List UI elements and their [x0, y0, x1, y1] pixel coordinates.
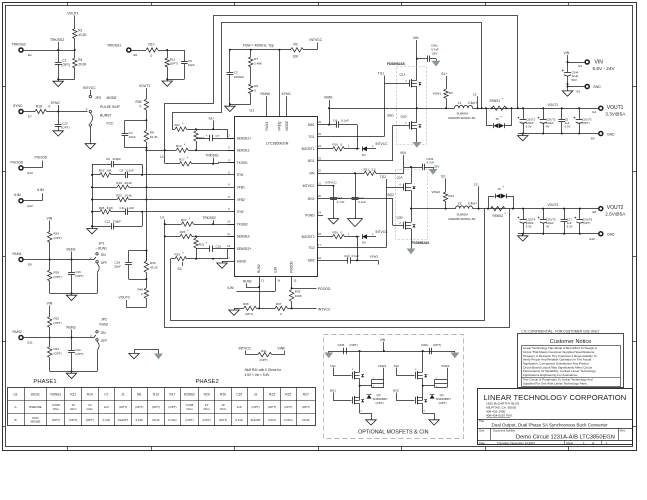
svg-text:Ohm: Ohm	[70, 407, 77, 411]
capacitor C1 (OPT)	[55, 50, 70, 79]
note LTC confidential	[522, 329, 601, 333]
svg-text:L1: L1	[458, 101, 462, 105]
svg-text:BG2: BG2	[393, 389, 399, 393]
svg-text:SW2: SW2	[308, 259, 315, 263]
svg-text:VINF: VINF	[278, 347, 286, 351]
svg-text:(OPT): (OPT)	[185, 418, 193, 422]
svg-text:R38: R38	[243, 302, 249, 306]
wire + node ILIM label	[23, 188, 43, 201]
ground JP3	[85, 144, 95, 149]
wire SW1 node rail	[328, 107, 454, 109]
resistor R38 (OPT)	[234, 302, 275, 316]
svg-text:VSW1: VSW1	[324, 96, 333, 100]
svg-text:SENSE: SENSE	[30, 420, 40, 424]
node TG2 optional	[393, 364, 414, 376]
svg-text:ILIM: ILIM	[37, 188, 44, 192]
title date row	[479, 441, 608, 445]
svg-text:L1-: L1-	[160, 155, 165, 159]
svg-text:PGND: PGND	[305, 213, 315, 217]
node TG1 optional	[330, 364, 352, 376]
svg-text:RUN2: RUN2	[257, 264, 261, 273]
capacitor C7 + wire SENSE1+	[196, 129, 235, 141]
wire comp right rail	[142, 164, 144, 226]
capacitor C8 220pF	[92, 157, 142, 167]
resistor R8 62.4K	[144, 131, 157, 142]
resistor RSNS1 0.008	[490, 97, 508, 110]
svg-text:10K: 10K	[293, 55, 300, 59]
svg-text:J6: J6	[498, 187, 502, 191]
customer notice box	[518, 334, 624, 388]
node L2- label	[160, 216, 165, 220]
svg-text:BG1: BG1	[388, 114, 395, 118]
svg-text:INTVCC: INTVCC	[318, 307, 331, 311]
svg-text:3.01K: 3.01K	[135, 418, 143, 422]
svg-text:R13: R13	[199, 136, 205, 140]
power-ground CIN2	[429, 169, 438, 175]
svg-text:TRK/SS2: TRK/SS2	[203, 216, 217, 220]
svg-text:2.49K: 2.49K	[254, 61, 262, 65]
svg-text:R16: R16	[333, 143, 339, 147]
svg-text:10pF: 10pF	[188, 63, 195, 67]
svg-text:43.2K: 43.2K	[78, 33, 87, 37]
node VSW2 optional	[423, 364, 450, 388]
ground RUN1	[66, 295, 76, 300]
dashed outline Q2 package	[396, 170, 428, 240]
svg-text:OPTIONAL MOSFETS & CIN: OPTIONAL MOSFETS & CIN	[358, 430, 429, 436]
svg-text:E6: E6	[591, 137, 595, 141]
svg-text:TG2: TG2	[393, 364, 399, 368]
svg-text:C7: C7	[216, 134, 220, 138]
svg-text:R35: R35	[136, 100, 142, 104]
svg-text:MODE: MODE	[285, 121, 289, 131]
svg-text:Supplied For Use With Linear T: Supplied For Use With Linear Technology …	[523, 381, 588, 385]
capacitor C12 330pF	[92, 220, 142, 230]
wire ITH2 row to U1	[141, 211, 227, 213]
svg-text:(OPT): (OPT)	[69, 418, 77, 422]
svg-text:RUN2: RUN2	[100, 322, 109, 326]
svg-text:RSNS2: RSNS2	[184, 392, 195, 396]
resistor R33 100K	[289, 290, 301, 310]
node SYNC to U1	[282, 92, 292, 117]
svg-text:E8: E8	[593, 210, 597, 214]
svg-text:TK/SS2: TK/SS2	[237, 222, 248, 226]
svg-text:VSW2: VSW2	[432, 190, 441, 194]
svg-text:R36: R36	[333, 230, 339, 234]
wire RUN1	[23, 259, 94, 261]
U1 right pin stubs	[317, 120, 323, 261]
connector E3 GND	[577, 85, 602, 94]
resistor R9 0	[249, 84, 259, 104]
svg-text:Stuff R41 with 0 Ohms for: Stuff R41 with 0 Ohms for	[245, 368, 282, 372]
node VOUT2 feedback	[119, 296, 147, 308]
svg-text:ILIM: ILIM	[228, 286, 235, 290]
customer notice text	[523, 346, 598, 385]
transistor Q1B	[401, 107, 422, 142]
capacitor C5 1uF 6.3V	[558, 108, 570, 133]
ground Q4	[429, 420, 439, 425]
svg-text:4V: 4V	[546, 124, 550, 128]
node RUN1 label	[67, 248, 76, 260]
svg-text:E2: E2	[28, 53, 32, 57]
svg-text:(OPT): (OPT)	[135, 405, 143, 409]
resistor R41 (OPT)	[258, 349, 285, 362]
resistor R17* (TK/SS1 row)	[165, 156, 235, 166]
svg-text:4V: 4V	[546, 224, 550, 228]
transistor Q3 top	[352, 351, 364, 400]
power-ground link right	[154, 354, 163, 360]
svg-text:(OPT): (OPT)	[152, 405, 160, 409]
resistor R19 20.0k (VFB1)	[91, 181, 228, 190]
node VIN input	[564, 51, 570, 72]
capacitor CIN7 (OPT)	[421, 343, 441, 354]
svg-text:SENSE2-: SENSE2-	[237, 235, 251, 239]
svg-text:Applications Engineering For A: Applications Engineering For Assistance.	[523, 373, 578, 377]
svg-text:J1: J1	[121, 392, 125, 396]
resistor R21 2.2 (VIN filter)	[323, 167, 404, 176]
capacitor COUT5 (OPT)	[574, 108, 592, 133]
ground R38	[229, 308, 239, 315]
part label FDS6982AS ch1	[387, 62, 405, 66]
svg-text:3.01K: 3.01K	[268, 418, 276, 422]
ground TRK/SS1 filter	[162, 81, 172, 86]
wire RUN2	[23, 337, 94, 339]
svg-text:0.1uF: 0.1uF	[103, 418, 111, 422]
svg-text:R13: R13	[153, 392, 159, 396]
svg-text:RUN2: RUN2	[13, 330, 22, 334]
svg-text:6.3V: 6.3V	[526, 124, 532, 128]
caption optional mosfets	[358, 430, 429, 436]
svg-text:TG2: TG2	[308, 246, 314, 250]
svg-text:2.2nF: 2.2nF	[127, 206, 135, 210]
svg-text:E7: E7	[28, 115, 32, 119]
capacitor C3 22pF	[122, 120, 147, 148]
svg-text:ILIM: ILIM	[14, 193, 21, 197]
wire TG1 gate	[323, 72, 409, 137]
svg-text:6.3V: 6.3V	[526, 224, 532, 228]
svg-text:R23: R23	[449, 194, 455, 198]
svg-text:(OPT): (OPT)	[268, 405, 276, 409]
svg-text:RUN1: RUN1	[13, 252, 22, 256]
svg-text:of: of	[592, 441, 594, 445]
wire BG2 gate	[323, 193, 404, 226]
resistor R29* (RH2)	[171, 251, 228, 261]
svg-text:(OPT): (OPT)	[350, 343, 358, 347]
wire R35 junction	[145, 110, 147, 130]
svg-text:C2: C2	[234, 71, 238, 75]
wire FSW bottom	[229, 103, 251, 106]
svg-text:E13: E13	[28, 171, 34, 175]
wire RUN2 ground rail	[50, 370, 97, 373]
resistor R11* (RH1)	[172, 122, 227, 132]
svg-text:220pF: 220pF	[113, 157, 122, 161]
wire RUN1 ground rail	[50, 292, 97, 295]
svg-text:R11: R11	[175, 123, 181, 127]
svg-text:R21: R21	[364, 167, 370, 171]
svg-text:SYNC: SYNC	[13, 104, 23, 108]
node VIN R32	[47, 302, 53, 317]
svg-text:2.2: 2.2	[372, 167, 377, 171]
node INTVCC JP3	[83, 86, 96, 95]
part label Q4 Si4816BDY (OPT)	[436, 393, 452, 405]
resistor R35 0	[136, 99, 149, 110]
svg-text:BG2: BG2	[388, 193, 395, 197]
svg-text:SYNC: SYNC	[51, 101, 61, 105]
capacitor COUT2 220uF 6.3V	[517, 108, 535, 133]
node VOUT1 R35	[139, 84, 150, 99]
svg-text:INTVCC: INTVCC	[376, 230, 389, 234]
svg-text:DESC: DESC	[31, 392, 41, 396]
capacitor CIN4 22uF 50V	[562, 70, 579, 91]
svg-text:PGOOD: PGOOD	[11, 160, 24, 164]
svg-text:0.1uF: 0.1uF	[235, 418, 243, 422]
svg-text:SYNC: SYNC	[282, 92, 292, 96]
svg-text:Dual Output, Dual Phase 5A Syn: Dual Output, Dual Phase 5A Synchronous B…	[492, 422, 609, 427]
svg-text:VIN: VIN	[413, 36, 419, 40]
node VSW2 tap SW2	[370, 254, 379, 264]
svg-text:RSNS2: RSNS2	[493, 214, 504, 218]
svg-text:(OPT): (OPT)	[61, 63, 70, 67]
svg-text:0.1uF: 0.1uF	[341, 118, 349, 122]
wire comp left rail	[91, 164, 93, 228]
power-ground Q2B source	[407, 249, 416, 255]
svg-text:408-434-0507 FAX: 408-434-0507 FAX	[486, 414, 512, 418]
svg-text:0: 0	[140, 105, 142, 109]
svg-text:(OPT): (OPT)	[54, 275, 62, 279]
wire to ground ch1 trk	[166, 67, 184, 81]
svg-text:BOOST2: BOOST2	[302, 235, 315, 239]
jumper JP3 MODE	[86, 95, 121, 143]
svg-text:(OPT): (OPT)	[260, 358, 268, 362]
svg-text:VFB1: VFB1	[237, 186, 245, 190]
capacitor C21 (OPT)	[68, 338, 83, 372]
capacitor CIN6 (OPT)	[338, 343, 358, 354]
svg-text:2.2nF: 2.2nF	[126, 169, 134, 173]
node INTVCC D3	[376, 230, 389, 234]
resistor R7 2.49K	[249, 50, 263, 84]
title block box	[478, 389, 633, 445]
node INTVCC R2	[310, 38, 323, 50]
svg-text:SUMIDA: SUMIDA	[457, 212, 469, 216]
svg-text:PGOOD: PGOOD	[290, 260, 294, 273]
diode D3	[362, 233, 376, 245]
capacitor C17 1uF 6.3V	[561, 209, 573, 234]
svg-text:SENSE1-: SENSE1-	[237, 149, 251, 153]
svg-text:6.3V: 6.3V	[565, 124, 571, 128]
svg-text:GND: GND	[593, 85, 601, 89]
svg-text:RUN1: RUN1	[67, 248, 76, 252]
resistor R10 0	[131, 43, 158, 59]
wire R10 to R12/C6	[158, 49, 184, 51]
svg-text:2.5V@5A: 2.5V@5A	[605, 211, 626, 216]
resistor R34 (OPT)	[48, 338, 62, 372]
svg-text:CIN6: CIN6	[338, 343, 345, 347]
resistor R4 20.0K	[73, 58, 88, 68]
svg-text:(OPT): (OPT)	[439, 401, 447, 405]
svg-text:C7: C7	[104, 392, 108, 396]
svg-text:R18: R18	[36, 105, 42, 109]
resistor R40 0	[138, 288, 149, 308]
svg-text:(OPT): (OPT)	[376, 401, 384, 405]
svg-text:RSNS1: RSNS1	[490, 99, 501, 103]
node VIN optional	[380, 338, 386, 351]
resistor R27* (TK/SS2 row)	[165, 217, 235, 227]
node INTVCC R41	[239, 347, 258, 355]
svg-text:1nF: 1nF	[237, 405, 242, 409]
ground RUN2	[66, 373, 76, 378]
svg-text:0 Ohm: 0 Ohm	[168, 418, 178, 422]
svg-text:(OPT): (OPT)	[75, 352, 83, 356]
transistor Q2B	[397, 208, 416, 249]
U1 left pin labels	[237, 136, 252, 263]
svg-text:ON: ON	[101, 253, 106, 257]
wire ground pair link	[135, 350, 159, 354]
node VOUT2 rail label	[548, 203, 559, 207]
svg-text:ILIM: ILIM	[273, 266, 277, 273]
part label Q3 Si4816BDY (OPT)	[373, 393, 389, 405]
svg-text:TG1: TG1	[330, 364, 336, 368]
svg-text:100K: 100K	[295, 294, 302, 298]
svg-text:S1+: S1+	[441, 72, 447, 76]
svg-text:R20: R20	[116, 194, 122, 198]
svg-text:2.4uH: 2.4uH	[468, 202, 477, 206]
svg-text:TRK/SS1: TRK/SS1	[206, 154, 220, 158]
jumper JP2 RUN2	[90, 318, 108, 372]
svg-text:FDS6982AS: FDS6982AS	[412, 241, 430, 245]
svg-text:RUN2: RUN2	[243, 280, 252, 284]
svg-text:A: A	[15, 405, 17, 409]
diode pair J5	[487, 109, 512, 129]
svg-text:PHASE1: PHASE1	[33, 379, 56, 385]
svg-text:0 Ohm: 0 Ohm	[284, 418, 294, 422]
svg-text:62.4K: 62.4K	[150, 135, 158, 139]
resistor R36 0	[323, 230, 360, 238]
svg-text:CDEP85-2R4MC-50: CDEP85-2R4MC-50	[448, 217, 476, 221]
resistor R37 0	[275, 302, 317, 316]
capacitor C15 + wire SENSE2+	[196, 245, 235, 259]
svg-text:Ohm: Ohm	[53, 407, 60, 411]
svg-text:JP1: JP1	[99, 242, 105, 246]
connector E11 RUN2	[13, 330, 33, 345]
table row B DCR SENSE	[15, 416, 310, 424]
svg-text:(OPT): (OPT)	[582, 121, 590, 125]
svg-text:PULSE SKIP: PULSE SKIP	[100, 105, 121, 109]
svg-text:Customer Notice: Customer Notice	[550, 339, 592, 345]
diode pair J6	[489, 186, 514, 209]
svg-text:R19: R19	[116, 181, 122, 185]
svg-text:U1: U1	[14, 392, 18, 396]
wire VOUT2 rail	[473, 208, 599, 210]
svg-text:VOUT1: VOUT1	[548, 103, 559, 107]
node S2- / resistor R23	[432, 175, 455, 210]
ground SYNC cap	[53, 131, 63, 136]
svg-text:VIN: VIN	[564, 51, 570, 55]
svg-text:25V: 25V	[432, 52, 437, 56]
wire TG2 gate	[323, 175, 404, 248]
node VSW1 tap	[324, 96, 333, 126]
wire sense loop 2a	[164, 209, 510, 328]
svg-text:50V: 50V	[572, 78, 577, 82]
svg-text:R6: R6	[449, 91, 453, 95]
transistor Q4 bottom	[416, 385, 428, 413]
svg-text:RUN1: RUN1	[265, 122, 269, 131]
dashed outline Q1 package	[397, 67, 427, 145]
svg-text:VOUT1: VOUT1	[607, 105, 624, 111]
node VIN Q2	[400, 151, 412, 181]
svg-text:(OPT): (OPT)	[54, 351, 62, 355]
svg-text:Demo Circuit 1231A-A/B LTC3: Demo Circuit 1231A-A/B LTC3850EGN	[516, 434, 615, 440]
svg-text:R2: R2	[294, 42, 298, 46]
node VIN Q1	[413, 36, 419, 72]
resistor R1 43.2K	[73, 29, 88, 39]
svg-text:R14: R14	[176, 144, 182, 148]
svg-text:20.0k: 20.0k	[302, 418, 310, 422]
svg-text:(OPT): (OPT)	[284, 405, 292, 409]
svg-text:0.1uF: 0.1uF	[358, 200, 366, 204]
connector E7 SYNC	[13, 104, 32, 119]
svg-text:RSNS1: RSNS1	[51, 392, 62, 396]
svg-text:R41: R41	[261, 349, 267, 353]
wire sense column	[145, 142, 147, 261]
wire + node PGOOD label	[23, 156, 47, 168]
node BG2 optional	[393, 389, 414, 401]
node VOUT1 rail label	[548, 103, 559, 107]
svg-text:Thursday, December 13,2007: Thursday, December 13,2007	[497, 441, 535, 445]
svg-text:OFF: OFF	[101, 339, 107, 343]
capacitor COUT3 100uF 4V	[538, 209, 556, 234]
capacitor CIN1 4.7uF 25V	[416, 44, 439, 62]
svg-text:R27: R27	[181, 218, 187, 222]
capacitor C2 1000pF	[227, 50, 245, 104]
svg-text:R27: R27	[303, 392, 309, 396]
svg-text:TG2: TG2	[380, 175, 386, 179]
resistor R25 8.2K + capacitor C11 2.2nF (ITH2)	[92, 206, 142, 215]
wire FSW rail	[229, 49, 291, 51]
svg-text:SHORT: SHORT	[118, 418, 129, 422]
svg-text:B: B	[15, 418, 17, 422]
svg-text:TRK/SS2: TRK/SS2	[50, 38, 64, 42]
svg-text:INTVCC: INTVCC	[303, 184, 316, 188]
svg-text:S2-: S2-	[441, 175, 446, 179]
U1 right pin labels	[302, 123, 316, 263]
diode Q4 body	[430, 395, 435, 399]
svg-text:(OPT): (OPT)	[219, 418, 227, 422]
svg-text:PGOOD: PGOOD	[318, 287, 331, 291]
svg-text:R22: R22	[285, 392, 291, 396]
svg-text:D1: D1	[362, 153, 366, 157]
jumper JP1 RUN1	[90, 242, 107, 294]
resistor R13*	[194, 129, 208, 150]
wire Q4 bottom + ground	[423, 411, 435, 420]
svg-text:CIN6: CIN6	[421, 343, 428, 347]
wire VOUT1 ground rail	[518, 133, 599, 136]
U1 bottom pin labels rotated	[257, 260, 293, 273]
title document number	[479, 428, 626, 440]
svg-text:Ohm: Ohm	[87, 407, 94, 411]
svg-text:PGOOD: PGOOD	[35, 156, 48, 160]
resistor RSNS2 0.008	[490, 206, 506, 217]
svg-text:3.3V@5A: 3.3V@5A	[605, 111, 626, 116]
svg-text:2.4uH: 2.4uH	[468, 101, 477, 105]
ground VIN input	[562, 91, 572, 96]
svg-text:Q2A: Q2A	[397, 176, 403, 180]
capacitor C18 22pF	[114, 251, 146, 280]
svg-text:E12: E12	[28, 204, 34, 208]
resistor R2 10K	[291, 42, 318, 58]
svg-text:GND: GND	[607, 233, 615, 237]
svg-text:R11: R11	[70, 392, 76, 396]
svg-text:R25: R25	[99, 206, 105, 210]
svg-text:J2: J2	[254, 392, 258, 396]
